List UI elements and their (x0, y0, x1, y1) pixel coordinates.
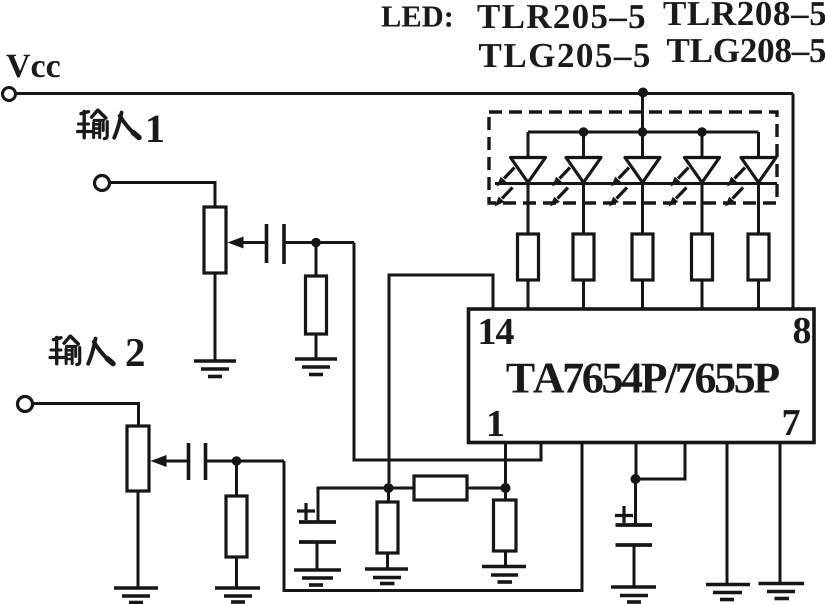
wire: Vcc rail (16, 92, 794, 95)
node: bus junction LED2 (579, 127, 589, 137)
potentiometer VR2 body (127, 426, 149, 491)
node B: junction input2 (232, 456, 242, 466)
LED D5 (725, 132, 776, 234)
wire: VR2 bottom to ground (137, 491, 140, 588)
resistor R4 (under node C) (377, 488, 398, 569)
node D: RC junction right (501, 483, 511, 493)
ground: pin wire (706, 585, 750, 600)
wire: RL2 to IC (582, 280, 585, 309)
wire: input2 to potentiometer (33, 404, 139, 427)
wire: RL5 to IC (757, 280, 760, 309)
node A: junction input1 (311, 238, 321, 248)
wire: IC bottom pin jog to node E (636, 443, 685, 479)
ground: R2 (215, 588, 260, 602)
wire: input1 signal to IC pin (bottom) (354, 243, 541, 461)
capacitor C2 (coupling, input2) (189, 443, 206, 480)
pin label 14 (481, 319, 514, 344)
potentiometer VR1 wiper arrow (243, 241, 266, 244)
capacitor C3 (electrolytic, node C) (297, 488, 389, 570)
node: bus junction LED4 (697, 127, 707, 137)
wire: node D up to IC pin 1 (504, 443, 507, 488)
wire: C2 to node B (206, 460, 285, 463)
LED D1 (495, 132, 546, 234)
wire: pin 14 loop to bottom RC node (389, 275, 493, 483)
pin label 7 (784, 410, 800, 435)
wire: node C to R3 horizontal (389, 487, 415, 490)
wire: input1 to potentiometer (110, 183, 216, 208)
wire: pin 7 to ground (779, 443, 782, 584)
LED D3 (609, 158, 660, 235)
IC U1 TA7654P/7655P body (469, 309, 815, 443)
wire: RL1 to IC (527, 280, 530, 309)
label: LED type list line 1 (382, 2, 825, 29)
ground: pin 7 (759, 584, 805, 599)
wire: R1 to ground (315, 334, 318, 359)
wire: node A down to R1 (315, 243, 318, 277)
resistor R5 (under node D) (494, 488, 517, 567)
resistor RL1 (518, 234, 539, 280)
resistor RL5 (748, 234, 769, 280)
resistor RL2 (573, 234, 594, 280)
wire: input2 signal bottom run to IC pin (284, 443, 582, 591)
terminal: input 1 (95, 176, 110, 191)
wire: R2 to ground (235, 557, 238, 588)
dashed box: LED array module (489, 112, 777, 203)
wire: LED cathode common line (495, 182, 777, 185)
wire: C1 to node A (284, 241, 354, 244)
label: Vcc (6, 55, 60, 78)
resistor R3 (horizontal) (414, 476, 467, 500)
terminal: input 2 (18, 397, 33, 412)
ground: C4 (611, 587, 656, 602)
resistor R1 (input1 bias) (306, 276, 327, 334)
wire: LED3 stem from Vcc (641, 93, 644, 158)
wire: IC pin to ground (left of 7) (726, 443, 729, 585)
wire: RL3 to IC (641, 280, 644, 309)
potentiometer VR2 wiper arrow (166, 460, 188, 463)
capacitor C4 (electrolytic, node E) (615, 479, 652, 587)
resistor RL4 (692, 234, 713, 280)
LED D4 (669, 132, 720, 234)
ground: R5 (482, 567, 526, 583)
yu bottom box (92, 123, 95, 138)
ground: C3 (294, 570, 341, 585)
label: input 2 (hanzi "shu ru") (50, 336, 80, 364)
potentiometer VR1 body (204, 207, 226, 273)
ground: R4 (365, 569, 408, 584)
wire: LED anode bus (528, 131, 759, 134)
wire: R3 to node D (467, 487, 506, 490)
pin label 1 (489, 411, 503, 436)
ground: VR2 (114, 588, 158, 603)
yu roof (92, 110, 98, 117)
ground: R1 (295, 359, 337, 375)
wire: VR1 bottom to ground (214, 273, 217, 361)
pin label 8 (794, 318, 810, 344)
node: Vcc junction to LED3 (638, 88, 648, 98)
wire: IC bottom pin to node E (635, 443, 638, 479)
resistor R2 (input2 bias) (226, 496, 247, 557)
wire: Vcc drop to IC pin 8 (792, 94, 795, 310)
capacitor C1 (coupling, input1) (267, 224, 285, 264)
node: bus junction LED3 (638, 127, 648, 137)
node C: RC junction left (384, 483, 394, 493)
wire: RL4 to IC (701, 280, 704, 309)
LED D2 (550, 132, 601, 234)
node E: cap junction (631, 474, 641, 484)
ground: VR1 (194, 361, 236, 377)
resistor RL3 (632, 234, 653, 280)
label: LED type list line 2 (479, 39, 825, 68)
che radical (81, 112, 89, 114)
label: IC part number (507, 363, 779, 393)
wire: node B down to R2 (235, 461, 238, 496)
label: input 1 (hanzi "shu ru") (78, 110, 108, 138)
terminal: Vcc input (3, 88, 16, 101)
